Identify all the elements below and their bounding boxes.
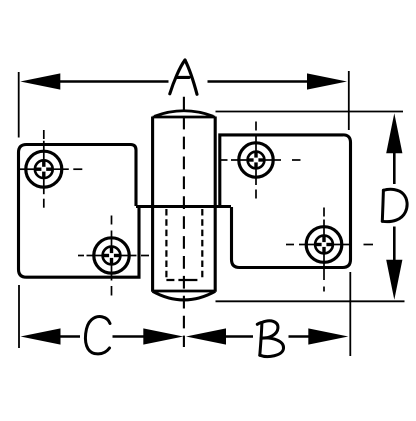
dim A extension line left <box>18 72 20 138</box>
hidden bore left <box>165 209 167 280</box>
barrel bottom arc <box>153 291 216 300</box>
dim B arrow right <box>308 328 348 344</box>
screw hole 3 outer <box>239 143 273 177</box>
knuckle joint line <box>136 205 231 208</box>
dim A line left <box>58 80 169 83</box>
right plate outline <box>220 135 351 268</box>
screw hole 4 inner <box>315 236 333 254</box>
label A <box>170 60 197 94</box>
label B <box>257 321 283 357</box>
dim C arrow right <box>143 328 183 344</box>
screw hole 4 outer <box>306 227 342 263</box>
screw hole 2 cross <box>103 247 119 263</box>
barrel top chord <box>153 116 216 119</box>
dim B line right <box>289 335 310 338</box>
screw hole 1 inner <box>35 160 53 178</box>
label D <box>382 189 407 221</box>
barrel bottom chord <box>153 290 216 293</box>
dim D arrow bottom <box>386 260 402 300</box>
barrel right edge <box>214 117 217 292</box>
screw hole 2 outer <box>94 238 129 273</box>
hole 4 centerlines <box>286 208 373 292</box>
hidden bore right <box>201 209 203 280</box>
screw hole 3 cross <box>248 152 264 168</box>
screw hole 4 cross <box>316 236 332 252</box>
screw hole 1 outer <box>26 151 62 187</box>
pin dome top <box>154 111 213 117</box>
dim D arrow top <box>386 113 402 153</box>
dim C extension line left <box>18 285 20 348</box>
dim B extension line right <box>349 272 351 356</box>
dim C arrow left <box>21 328 61 344</box>
dim D extension top <box>216 111 404 113</box>
left plate outline <box>19 145 140 278</box>
barrel centerline <box>183 97 185 347</box>
dim A arrow left <box>20 73 60 89</box>
dim B line left <box>226 335 253 338</box>
hole 3 centerlines <box>220 122 301 199</box>
dim C line right <box>113 335 145 338</box>
screw hole 1 cross <box>36 161 52 177</box>
screw hole 3 inner <box>248 152 265 169</box>
dim C line left <box>58 335 80 338</box>
dim B arrow left <box>186 328 226 344</box>
dim D line upper <box>393 150 396 184</box>
screw hole 2 inner <box>103 247 121 265</box>
label C <box>85 317 110 354</box>
barrel left edge <box>151 117 154 292</box>
dim D extension bottom <box>216 300 405 302</box>
hidden bore bottom <box>166 279 202 281</box>
dim D line lower <box>393 227 396 262</box>
dim A arrow right <box>307 73 347 89</box>
hole 1 centerlines <box>20 130 83 208</box>
dim A extension line right <box>348 71 350 130</box>
dim A line right <box>208 80 310 83</box>
hole 2 centerlines <box>78 216 149 296</box>
